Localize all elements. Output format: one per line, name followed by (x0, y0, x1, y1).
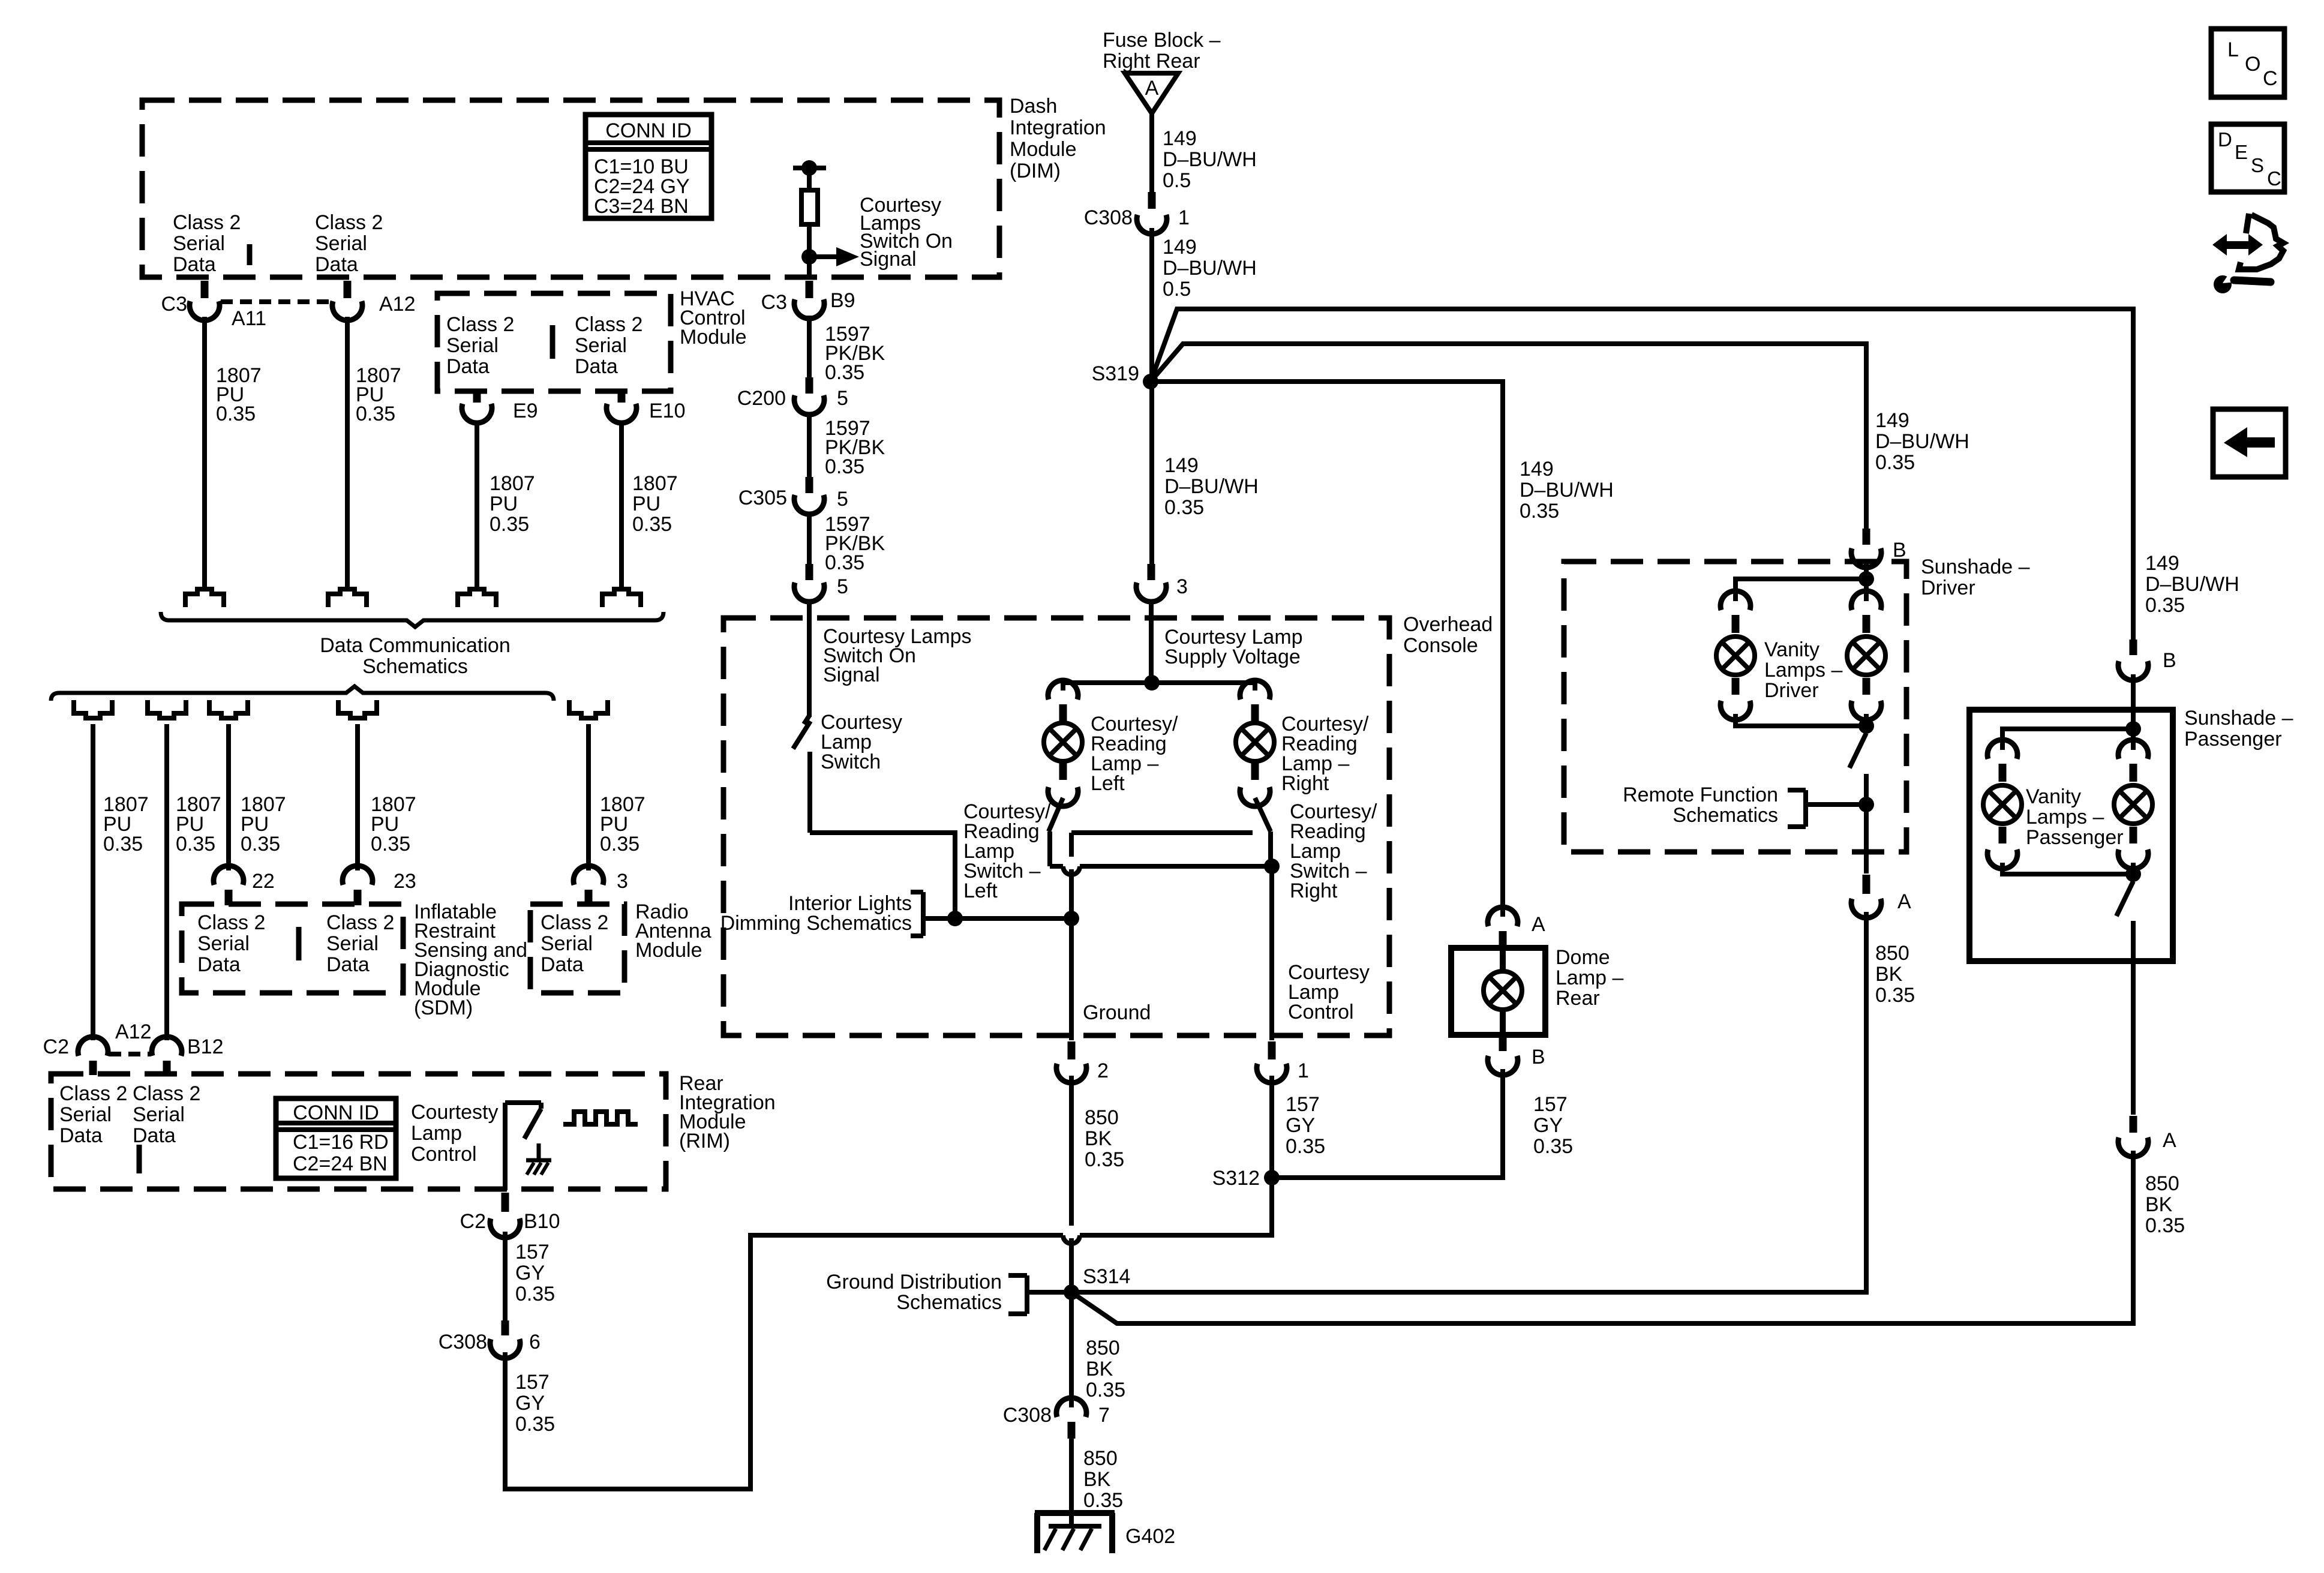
svg-text:A12: A12 (115, 1020, 152, 1043)
svg-text:Data: Data (59, 1124, 103, 1147)
connector pin 23 (SDM) (343, 866, 373, 885)
connector E10 (618, 392, 626, 403)
svg-text:B: B (1532, 1046, 1545, 1068)
svg-text:O: O (2245, 53, 2260, 76)
svg-text:Control: Control (411, 1143, 477, 1166)
module box: Dome Lamp - Rear (1451, 948, 1545, 1035)
svg-text:Signal: Signal (823, 664, 880, 686)
connector C2 pin A12 (RIM) (78, 1037, 108, 1056)
connector: vanity driver right bottom (1863, 678, 1870, 695)
svg-text:S312: S312 (1212, 1167, 1260, 1190)
connector pin 5 (console, courtesy lamps switch on signal) (806, 564, 813, 580)
icon box: DESC (2211, 124, 2284, 192)
svg-text:B9: B9 (830, 289, 855, 312)
icon box: back arrow (2213, 409, 2286, 477)
svg-text:Serial: Serial (446, 334, 499, 357)
wire: 1807 PU to SDM pin 23 (355, 724, 360, 870)
svg-text:0.35: 0.35 (1164, 496, 1204, 519)
svg-text:Console: Console (1403, 634, 1478, 657)
svg-text:Data Communication: Data Communication (320, 634, 510, 657)
connector C305 pin 5 (806, 477, 813, 493)
module box: Radio Antenna Module, dashed (530, 904, 624, 993)
svg-text:Courtesty: Courtesty (411, 1101, 499, 1124)
svg-text:Driver: Driver (1921, 577, 1975, 599)
svg-text:0.35: 0.35 (515, 1283, 555, 1305)
svg-text:0.35: 0.35 (2145, 594, 2185, 617)
svg-text:Schematics: Schematics (362, 655, 468, 678)
svg-text:149: 149 (1163, 236, 1197, 259)
connector pin B (sunshade passenger) (2130, 640, 2137, 655)
connector pin 22 (SDM) (214, 866, 244, 885)
svg-text:A: A (2163, 1129, 2176, 1152)
ground: RIM internal ground (537, 1143, 541, 1160)
svg-text:Remote Function: Remote Function (1623, 784, 1778, 806)
node: remote function junction (1858, 797, 1874, 812)
svg-text:GY: GY (515, 1392, 545, 1415)
svg-text:Data: Data (326, 953, 370, 976)
svg-text:149: 149 (1875, 409, 1909, 432)
svg-text:D–BU/WH: D–BU/WH (1164, 475, 1259, 498)
svg-text:Data: Data (541, 953, 584, 976)
wire: switch commons bar to ground wire (1071, 830, 1253, 835)
wire: driver B into vanity bridge (1864, 564, 1869, 579)
bulb: Vanity Lamps - Passenger right (2114, 785, 2152, 824)
svg-text:G402: G402 (1125, 1525, 1175, 1548)
svg-text:Module: Module (635, 939, 702, 962)
wire: 1807 PU from E10 to terminal (619, 421, 624, 587)
wire: 157 GY S312 to dome lamp B (1272, 1069, 1503, 1178)
connector C308 pin 1 (1148, 192, 1156, 209)
svg-text:1807: 1807 (632, 472, 678, 495)
svg-text:C3: C3 (761, 291, 787, 314)
svg-text:Class 2: Class 2 (575, 313, 642, 336)
svg-text:5: 5 (837, 575, 848, 598)
terminal: bus terminal to Radio 3 (569, 700, 608, 718)
wire: passenger B into vanity bridge (2131, 674, 2136, 729)
svg-text:S319: S319 (1092, 362, 1139, 385)
connector: right lamp bottom (1251, 763, 1259, 780)
switch: Courtesy/Reading Lamp Switch - Left (1049, 798, 1063, 831)
wire/connector: right reading lamp feed (1240, 680, 1270, 700)
wire: left switch output to control node with hump (1050, 864, 1063, 869)
svg-text:157: 157 (515, 1371, 550, 1394)
svg-text:C1=16 RD: C1=16 RD (293, 1131, 389, 1154)
splice S312 (1264, 1170, 1280, 1185)
terminal: data bus terminal 4 (E10 wire) (602, 589, 641, 607)
wire: 1807 PU from A12 to data-comm terminal (345, 317, 350, 587)
svg-text:C308: C308 (439, 1331, 487, 1353)
module box: Sunshade - Passenger (1969, 710, 2173, 961)
svg-text:1: 1 (1298, 1059, 1309, 1082)
svg-text:0.35: 0.35 (1083, 1489, 1123, 1512)
bulb: Vanity Lamps - Driver right (1847, 637, 1885, 675)
node: courtesy lamps switch-on signal junction (801, 249, 817, 265)
svg-text:3: 3 (617, 870, 628, 893)
svg-text:7: 7 (1098, 1404, 1110, 1427)
wire: supply bus to both reading lamps (1063, 683, 1255, 691)
svg-text:157: 157 (515, 1241, 550, 1263)
bulb: Vanity Lamps - Passenger left (1983, 785, 2022, 824)
svg-text:0.35: 0.35 (632, 513, 672, 536)
wire: supply voltage into console (1149, 599, 1154, 683)
svg-text:0.35: 0.35 (103, 833, 143, 855)
svg-text:E10: E10 (649, 400, 686, 422)
svg-text:Rear: Rear (1556, 987, 1600, 1010)
svg-text:850: 850 (1083, 1447, 1118, 1470)
svg-text:C3=24 BN: C3=24 BN (594, 195, 689, 218)
svg-text:C200: C200 (737, 387, 786, 410)
connector C308 pin 6 (502, 1320, 509, 1335)
wire: S319 branch to sunshade driver B (1151, 344, 1866, 529)
svg-text:Lamps –: Lamps – (2026, 806, 2104, 828)
signal: square wave PWM symbol (563, 1112, 638, 1124)
icon box: LOC (2211, 29, 2284, 97)
svg-text:Data: Data (197, 953, 241, 976)
svg-text:L: L (2227, 38, 2239, 61)
connector pin B (dome lamp) (1499, 1037, 1507, 1051)
connector: vanity passenger left bottom (1999, 827, 2007, 843)
wire: 149 D-BU/WH 0.5 from fuse to C308 (1149, 113, 1154, 192)
svg-text:5: 5 (837, 488, 848, 511)
svg-text:Lamps –: Lamps – (1764, 659, 1842, 682)
svg-text:149: 149 (1164, 454, 1199, 477)
svg-text:Class 2: Class 2 (133, 1082, 200, 1105)
terminal: bus terminal to B12 (RIM) (148, 700, 186, 718)
connector pin 2 (console ground) (1068, 1041, 1076, 1059)
svg-text:Class 2: Class 2 (326, 911, 394, 934)
connector: vanity driver left bottom (1732, 678, 1740, 695)
connector: vanity passenger right bottom (2130, 827, 2137, 843)
svg-text:C308: C308 (1003, 1404, 1052, 1427)
svg-text:6: 6 (529, 1331, 541, 1353)
svg-text:0.5: 0.5 (1163, 169, 1191, 192)
wire: 1597 PK/BK from C305 to console 5 (807, 512, 812, 564)
svg-text:BK: BK (1085, 1127, 1112, 1150)
table: CONN ID (DIM) (585, 115, 711, 218)
svg-text:Vanity: Vanity (1764, 638, 1819, 661)
wire: 149 D-BU/WH 0.35 main down to overhead console (1149, 382, 1154, 564)
svg-text:BK: BK (1086, 1358, 1113, 1380)
svg-text:Left: Left (963, 879, 998, 902)
svg-text:Vanity: Vanity (2026, 785, 2081, 808)
switch: Courtesy/Reading Lamp Switch - Right (1255, 798, 1271, 831)
svg-text:E: E (2235, 141, 2248, 163)
svg-text:0.35: 0.35 (825, 361, 864, 384)
svg-text:D–BU/WH: D–BU/WH (1875, 430, 1969, 453)
svg-text:0.5: 0.5 (1163, 278, 1191, 301)
svg-text:Schematics: Schematics (896, 1291, 1002, 1314)
svg-text:CONN ID: CONN ID (293, 1101, 379, 1124)
bracket: Ground Distribution Schematics (1025, 1275, 1029, 1314)
wire/connector: vanity driver right top (1864, 579, 1869, 601)
svg-text:850: 850 (1085, 1106, 1119, 1129)
svg-text:GY: GY (1286, 1114, 1315, 1137)
connector C3 pin A11 (201, 281, 209, 298)
svg-text:Supply Voltage: Supply Voltage (1164, 646, 1301, 668)
svg-text:B: B (2163, 649, 2176, 672)
wire: S319 branch to dome lamp A (1151, 382, 1503, 917)
terminal: data bus terminal 2 (A12 wire) (328, 589, 367, 607)
module box: HVAC Control Module, dashed (437, 293, 671, 391)
svg-text:149: 149 (1520, 458, 1554, 481)
wire: 157 GY B10 to C308 (503, 1232, 508, 1320)
wire: 1807 PU from E9 to terminal (475, 421, 479, 587)
module box: Inflatable Restraint SDM, dashed (182, 904, 403, 993)
svg-text:Data: Data (133, 1124, 176, 1147)
splice S319 (1143, 374, 1158, 389)
node: vanity driver bottom splice (1858, 718, 1874, 734)
svg-text:D–BU/WH: D–BU/WH (1163, 257, 1257, 280)
svg-text:0.35: 0.35 (1875, 451, 1915, 474)
connector C308 pin 7 (1056, 1398, 1086, 1417)
table: CONN ID (RIM) (276, 1098, 396, 1178)
connector link A12-B12 dashed (109, 1052, 150, 1056)
svg-text:C2: C2 (43, 1035, 69, 1058)
svg-text:A: A (1897, 890, 1911, 913)
connector pin A (dome lamp) (1488, 907, 1518, 926)
wire: 1597 PK/BK from B9 to C200 (807, 316, 812, 377)
wire: 1807 PU to Radio pin 3 (586, 724, 591, 870)
svg-text:GY: GY (515, 1262, 545, 1284)
svg-text:C2=24 BN: C2=24 BN (293, 1152, 388, 1175)
svg-text:0.35: 0.35 (825, 551, 864, 574)
svg-text:Left: Left (1091, 772, 1125, 795)
svg-text:149: 149 (2145, 552, 2179, 575)
svg-text:A: A (1145, 77, 1159, 100)
wire: 850 BK S314 down to C308-7 (1069, 1292, 1074, 1407)
svg-text:PU: PU (490, 493, 518, 515)
node: courtesy lamp control junction (1264, 858, 1280, 874)
svg-text:Data: Data (446, 355, 490, 378)
svg-text:2: 2 (1097, 1059, 1109, 1082)
connector E9 (473, 392, 481, 403)
svg-text:Passenger: Passenger (2026, 826, 2124, 849)
module box: Overhead Console, dashed (723, 618, 1389, 1035)
connector pin 1 (console control) (1268, 1041, 1276, 1059)
svg-text:Data: Data (575, 355, 618, 378)
wire: 1597 PK/BK from C200 to C305 (807, 412, 812, 477)
svg-text:Class 2: Class 2 (59, 1082, 127, 1105)
node: vanity passenger top splice (2125, 721, 2141, 737)
svg-text:Serial: Serial (326, 932, 379, 955)
svg-text:0.35: 0.35 (515, 1413, 555, 1436)
svg-text:23: 23 (394, 870, 416, 893)
wire/connector: left reading lamp feed (1048, 680, 1078, 700)
svg-text:Module: Module (680, 326, 747, 349)
node: resistor top junction (801, 160, 817, 176)
svg-text:22: 22 (252, 870, 275, 893)
svg-text:D: D (2218, 128, 2232, 151)
svg-text:0.35: 0.35 (1086, 1379, 1125, 1401)
svg-text:0.35: 0.35 (216, 403, 256, 425)
wire: control wire down to pin 1 (1269, 866, 1274, 1040)
wire/connector: vanity passenger right top (2131, 729, 2136, 750)
wire: 1807 PU from A11 to data-comm terminal (202, 317, 207, 587)
resistor: courtesy lamps pull-up inside DIM (793, 166, 826, 170)
svg-text:Dimming Schematics: Dimming Schematics (720, 912, 912, 935)
terminal: bus terminal to C2 (RIM) (74, 700, 112, 718)
connector pin B (sunshade driver) (1863, 529, 1870, 545)
module box: Dash Integration Module (DIM), dashed (142, 100, 999, 277)
switch: Courtesy Lamp Switch (804, 716, 809, 724)
svg-text:B12: B12 (187, 1035, 224, 1058)
svg-text:B: B (1893, 539, 1906, 562)
svg-text:D–BU/WH: D–BU/WH (2145, 573, 2239, 596)
svg-text:A: A (1532, 913, 1545, 936)
svg-text:1807: 1807 (490, 472, 535, 495)
switch: courtesy lamp control output driver in RIM (503, 1103, 508, 1190)
svg-text:0.35: 0.35 (1875, 984, 1915, 1007)
svg-text:Serial: Serial (541, 932, 593, 955)
wire: 1807 PU to SDM pin 22 (226, 724, 231, 870)
svg-text:BK: BK (1083, 1468, 1111, 1491)
svg-text:C3: C3 (161, 293, 187, 316)
splice S314 (1064, 1284, 1079, 1300)
module box: Sunshade - Driver, dashed (1564, 562, 1906, 852)
wire: 850 BK C308-7 to G402 (1069, 1439, 1074, 1526)
svg-text:0.35: 0.35 (1520, 500, 1559, 523)
switch: sunshade driver vanity lamp switch (1849, 733, 1866, 768)
svg-text:0.35: 0.35 (1533, 1135, 1573, 1158)
svg-text:Driver: Driver (1764, 679, 1819, 702)
svg-text:BK: BK (1875, 963, 1903, 986)
wire crossover hump at ground wire (1063, 1235, 1080, 1244)
svg-text:Ground Distribution: Ground Distribution (826, 1271, 1002, 1293)
svg-text:Class 2: Class 2 (541, 911, 608, 934)
svg-text:3: 3 (1176, 575, 1188, 598)
terminal: data bus terminal 3 (E9 wire) (458, 589, 496, 607)
svg-text:(SDM): (SDM) (414, 996, 473, 1019)
wire: vanity passenger top bridge (2002, 729, 2133, 750)
bulb: Vanity Lamps - Driver left (1716, 637, 1755, 675)
bulb: Dome Lamp - Rear (1500, 948, 1506, 972)
node: dimming junction right (1064, 911, 1079, 926)
svg-text:850: 850 (2145, 1172, 2179, 1195)
svg-text:C305: C305 (738, 487, 787, 509)
brace: lower data communication bus brace (51, 686, 554, 701)
svg-text:C308: C308 (1084, 206, 1133, 229)
svg-text:Schematics: Schematics (1673, 804, 1778, 827)
connector separator dash (HVAC) (550, 325, 556, 359)
wire: 157 GY continues to S312 (1080, 1178, 1272, 1235)
svg-text:850: 850 (1086, 1337, 1120, 1359)
svg-text:157: 157 (1533, 1093, 1568, 1116)
wire: S319 branch to sunshade passenger B (1151, 309, 2133, 640)
wire: ground wire down to pin 2 (1069, 918, 1074, 1040)
svg-text:(DIM): (DIM) (1010, 160, 1061, 182)
icon: harness routing symbol with double arrow and wrench (2212, 234, 2227, 256)
svg-text:Integration: Integration (1010, 116, 1106, 139)
svg-text:Lamp: Lamp (411, 1122, 462, 1145)
svg-text:0.35: 0.35 (1286, 1135, 1325, 1158)
svg-text:Signal: Signal (860, 248, 917, 271)
svg-text:Class 2: Class 2 (197, 911, 265, 934)
svg-text:Class 2: Class 2 (315, 211, 383, 234)
svg-text:C2: C2 (460, 1210, 486, 1233)
connector separator dash (DIM) (247, 244, 253, 265)
terminal: bus terminal to SDM 22 (209, 700, 248, 718)
svg-text:0.35: 0.35 (825, 455, 864, 478)
svg-text:149: 149 (1163, 127, 1197, 150)
brace: upper data communication bus brace (161, 612, 663, 627)
svg-text:S: S (2251, 154, 2264, 176)
bracket: Remote Function Schematics (1803, 790, 1808, 827)
wire/connector: vanity passenger left top (1987, 740, 2017, 759)
svg-text:GY: GY (1533, 1114, 1563, 1137)
svg-text:Sunshade –: Sunshade – (1921, 556, 2030, 578)
svg-text:Data: Data (315, 253, 358, 276)
wire: courtesy lamp switch to dimming node (810, 833, 955, 918)
svg-text:Switch: Switch (821, 751, 881, 773)
connector B9 from DIM (courtesy lamps switch on signal) (806, 281, 813, 298)
svg-text:C: C (2263, 67, 2278, 90)
svg-text:Class 2: Class 2 (446, 313, 514, 336)
signal arrow: Courtesy Lamps Switch On Signal (809, 254, 836, 259)
svg-text:Dome: Dome (1556, 946, 1610, 969)
svg-text:Passenger: Passenger (2184, 728, 2282, 751)
svg-text:0.35: 0.35 (2145, 1214, 2185, 1237)
wire: S314 branch to sunshade driver A (1071, 912, 1866, 1292)
svg-text:157: 157 (1286, 1093, 1320, 1116)
svg-text:B10: B10 (524, 1210, 560, 1233)
svg-text:Sunshade –: Sunshade – (2184, 707, 2293, 730)
connector C2 pin B10 (RIM courtesy lamp control) (502, 1193, 509, 1212)
ground G402 (1035, 1510, 1115, 1516)
svg-text:Class 2: Class 2 (173, 211, 241, 234)
connector pin B12 (RIM) (152, 1037, 182, 1056)
svg-text:Lamp –: Lamp – (1556, 966, 1623, 989)
svg-text:0.35: 0.35 (371, 833, 410, 855)
connector separator dash (SDM) (296, 927, 302, 960)
svg-text:Module: Module (1010, 138, 1077, 161)
svg-text:Overhead: Overhead (1403, 613, 1493, 636)
connector: left lamp bottom (1059, 763, 1067, 780)
svg-text:Fuse Block –: Fuse Block – (1103, 29, 1221, 52)
svg-text:E9: E9 (513, 400, 538, 422)
wire: signal into courtesy lamp switch (807, 599, 812, 717)
connector pin 3 (Radio) (574, 866, 603, 885)
connector C3 pin A12 (344, 281, 352, 298)
svg-text:Ground: Ground (1083, 1001, 1151, 1024)
svg-text:PU: PU (632, 493, 660, 515)
bracket: Interior Lights Dimming Schematics (921, 892, 926, 936)
bulb: Courtesy/Reading Lamp - Right (1236, 723, 1274, 761)
svg-text:Serial: Serial (133, 1103, 185, 1126)
node: supply splice (1144, 675, 1160, 691)
wire: 1807 PU to RIM C2 (91, 724, 95, 1040)
svg-text:CONN ID: CONN ID (605, 119, 692, 142)
svg-text:C: C (2267, 167, 2281, 190)
svg-text:Data: Data (173, 253, 216, 276)
fuse block feed triangle A (1125, 73, 1178, 113)
module box: Rear Integration Module (RIM), dashed (51, 1074, 666, 1189)
wire: 1807 PU to RIM B12 (164, 724, 169, 1040)
svg-text:Dash: Dash (1010, 95, 1057, 118)
svg-text:Serial: Serial (59, 1103, 112, 1126)
svg-text:Serial: Serial (575, 334, 627, 357)
svg-text:S314: S314 (1083, 1265, 1130, 1288)
wire/connector: vanity driver left top (1721, 591, 1750, 610)
svg-text:Serial: Serial (315, 232, 367, 255)
svg-text:1: 1 (1178, 206, 1190, 229)
svg-text:0.35: 0.35 (241, 833, 280, 855)
node: dimming junction left (947, 911, 963, 926)
svg-text:Serial: Serial (197, 932, 250, 955)
node: vanity driver top splice (1858, 571, 1874, 587)
svg-text:(RIM): (RIM) (679, 1130, 730, 1152)
svg-text:D–BU/WH: D–BU/WH (1520, 479, 1614, 502)
connector pin 3 (console, courtesy lamp supply voltage) (1148, 564, 1155, 580)
